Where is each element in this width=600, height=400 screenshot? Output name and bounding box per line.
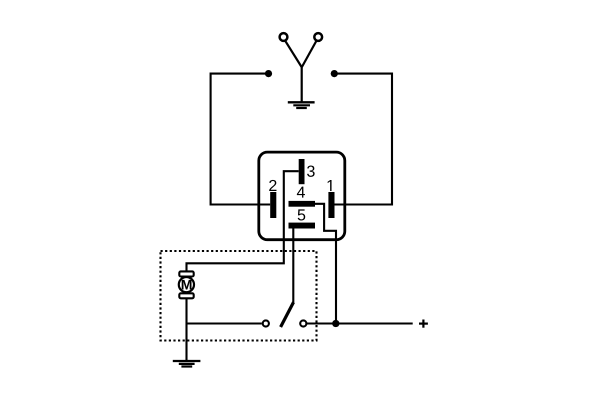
junction dot: right terminal node xyxy=(331,70,338,77)
plus terminal symbol xyxy=(419,320,428,328)
switch blade xyxy=(281,302,294,327)
wire: pin 4 to plus rail xyxy=(315,204,336,324)
wire: terminal B to Y junction xyxy=(302,41,316,67)
pin 1 (terminal bar) xyxy=(328,192,334,218)
wire: Y junction down to ground xyxy=(301,66,303,102)
pin 2 (terminal bar) xyxy=(270,192,276,218)
wire: motor node to switch left contact xyxy=(187,322,262,324)
ground (bottom, chassis) xyxy=(173,361,201,367)
motor M (body circle) xyxy=(179,277,194,292)
wire: switch right contact to plus terminal xyxy=(307,322,413,324)
motor M (top cap) xyxy=(179,271,193,276)
junction dot: left terminal node xyxy=(265,70,272,77)
junction dot: plus rail node xyxy=(332,320,339,327)
wire: right terminal node to relay pin 1 xyxy=(334,74,392,205)
pin label 3 xyxy=(307,166,315,177)
wire: motor to ground xyxy=(185,298,187,360)
wire: terminal A to Y junction xyxy=(286,41,302,67)
pin label 5 xyxy=(298,209,306,220)
connector terminal A (open circle) xyxy=(280,33,288,41)
pin 5 (terminal bar) xyxy=(289,223,316,229)
dashed enclosure box xyxy=(161,251,317,341)
relay body (rounded box) xyxy=(259,152,345,240)
pin label 1 xyxy=(328,180,332,191)
wire: left terminal node to relay pin 2 xyxy=(211,74,271,205)
motor M letter xyxy=(182,280,192,290)
motor M (bottom cap) xyxy=(179,293,193,298)
wire: pin 3 to motor branch xyxy=(187,171,299,272)
pin 4 (terminal bar) xyxy=(289,201,316,207)
switch right contact (open circle) xyxy=(300,320,306,326)
wire: pin 5 down to switch blade xyxy=(292,229,294,303)
pin label 4 xyxy=(297,187,305,198)
pin 3 (terminal bar) xyxy=(299,159,305,184)
connector terminal B (open circle) xyxy=(314,33,322,41)
ground (top, chassis) xyxy=(288,102,315,108)
pin label 2 xyxy=(269,180,276,191)
switch left contact (open circle) xyxy=(263,320,269,326)
